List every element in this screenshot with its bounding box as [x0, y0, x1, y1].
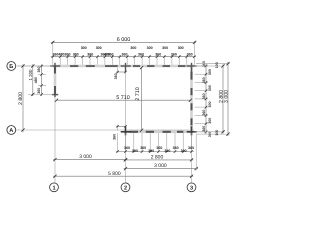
extension line right 2800 bottom	[195, 131, 225, 133]
labels top chain upper row	[81, 46, 184, 50]
axis line 3 vertical	[191, 73, 193, 183]
svg-text:480: 480	[34, 77, 38, 83]
labels right chain 300 col	[208, 69, 212, 137]
svg-text:360: 360	[202, 110, 206, 116]
dimension line 3000 right	[227, 62, 229, 136]
svg-text:300: 300	[130, 46, 136, 50]
dimension chain line bottom	[116, 151, 194, 153]
svg-text:360: 360	[124, 146, 130, 150]
svg-text:360: 360	[122, 53, 128, 57]
ticks 2800 bottom	[124, 158, 193, 161]
dimension chain line top	[51, 56, 196, 58]
wall band top	[53, 65, 194, 68]
svg-text:360: 360	[114, 73, 118, 79]
svg-text:3 000: 3 000	[79, 154, 92, 160]
extension line right 3000 bottom	[196, 133, 230, 135]
svg-text:360: 360	[171, 53, 177, 57]
post axis 2/B	[121, 63, 131, 72]
svg-text:360: 360	[173, 146, 179, 150]
svg-text:1 200: 1 200	[28, 69, 33, 81]
svg-text:300: 300	[178, 46, 184, 50]
svg-text:360: 360	[140, 146, 146, 150]
extension lines top chain	[60, 55, 187, 65]
axis circle 1	[50, 183, 59, 192]
svg-text:300: 300	[208, 118, 212, 124]
dimension chain line right	[205, 64, 207, 134]
axis line 1 vertical	[54, 96, 56, 183]
ticks 3000 bottom right	[124, 167, 198, 170]
dimension line 5800 bottom	[53, 175, 193, 177]
svg-text:360: 360	[187, 53, 193, 57]
svg-text:2 800: 2 800	[18, 92, 24, 105]
extension line top left end	[52, 41, 54, 65]
dimension line 2800 bottom	[124, 159, 194, 161]
dimension line 2800 right	[222, 64, 224, 133]
post bars top wall	[70, 65, 186, 67]
svg-text:2: 2	[124, 185, 127, 191]
svg-text:3 000: 3 000	[223, 90, 229, 103]
svg-text:300: 300	[147, 46, 153, 50]
svg-text:300: 300	[208, 102, 212, 108]
svg-text:1: 1	[52, 185, 55, 191]
axis line A horizontal	[16, 129, 194, 131]
ticks 2800 right	[221, 64, 224, 133]
wall band right	[190, 65, 193, 133]
svg-text:300: 300	[81, 46, 87, 50]
ticks 1200 left	[31, 64, 34, 96]
dimension chain line left	[41, 64, 43, 96]
svg-text:360: 360	[202, 77, 206, 83]
svg-text:360: 360	[65, 53, 71, 57]
svg-text:300: 300	[164, 149, 170, 153]
ticks 3000 right	[226, 62, 229, 136]
axis circle B (left top)	[7, 62, 16, 71]
wall band left	[54, 65, 57, 96]
svg-text:3 000: 3 000	[154, 163, 167, 169]
dimension 360 bottom interior	[116, 125, 127, 131]
wall band bottom right	[124, 131, 193, 134]
ticks bottom chain	[116, 150, 193, 153]
extension line left at B	[18, 65, 53, 67]
axis circle 2	[121, 183, 130, 192]
svg-text:360: 360	[37, 67, 41, 73]
svg-text:300: 300	[208, 85, 212, 91]
svg-text:300: 300	[148, 149, 154, 153]
svg-text:360: 360	[156, 146, 162, 150]
svg-text:2 710: 2 710	[135, 87, 141, 101]
svg-text:360: 360	[73, 53, 79, 57]
svg-text:300: 300	[132, 149, 138, 153]
tick 6000 right	[193, 41, 196, 44]
tick 6000 left	[51, 41, 54, 44]
svg-text:А: А	[9, 128, 13, 134]
svg-text:360: 360	[155, 53, 161, 57]
svg-text:360: 360	[202, 93, 206, 99]
ticks 3000 bottom left	[53, 158, 127, 161]
axis circle A (left bottom)	[7, 126, 16, 135]
labels bottom chain lower row	[132, 149, 187, 153]
svg-text:5 800: 5 800	[108, 171, 121, 177]
svg-text:3: 3	[190, 185, 193, 191]
svg-text:360: 360	[87, 53, 93, 57]
dimension line 2800 left	[22, 64, 24, 132]
svg-text:360: 360	[188, 146, 194, 150]
svg-text:Б: Б	[9, 64, 13, 70]
labels bottom chain upper row	[124, 146, 194, 150]
labels top chain lower row	[53, 53, 193, 57]
post axis 2/A	[121, 126, 131, 135]
ticks right chain	[205, 65, 208, 133]
extension lines left chain	[28, 74, 54, 94]
ticks top chain	[52, 55, 196, 58]
ticks 5800 bottom	[53, 175, 193, 178]
svg-text:5 710: 5 710	[116, 95, 130, 101]
post bars right wall	[191, 72, 193, 126]
svg-text:300: 300	[208, 69, 212, 75]
extension line right 3000 top	[196, 63, 230, 65]
svg-text:300: 300	[96, 46, 102, 50]
extension line x196 bottom	[195, 135, 197, 171]
end post left wall	[52, 92, 58, 97]
extension lines right chain	[195, 66, 208, 132]
dimension line 3000 bottom left	[53, 159, 127, 161]
extension line right 2800 top	[195, 65, 225, 67]
corner post axis 1/B	[50, 63, 60, 72]
axis circle 3	[187, 183, 196, 192]
ticks left chain	[40, 65, 43, 96]
svg-text:360: 360	[37, 88, 41, 94]
ticks 2710	[140, 66, 143, 132]
svg-text:360: 360	[108, 53, 114, 57]
svg-text:360: 360	[113, 134, 117, 140]
axis line B horizontal	[16, 65, 53, 67]
labels right chain 360 col	[202, 61, 206, 132]
svg-text:2 800: 2 800	[151, 155, 164, 161]
axis line 2 vertical	[125, 68, 127, 183]
svg-text:360: 360	[202, 126, 206, 132]
svg-text:6 000: 6 000	[117, 37, 131, 43]
dimension line 6000	[51, 41, 196, 43]
svg-text:300: 300	[162, 46, 168, 50]
svg-text:300: 300	[181, 149, 187, 153]
corner post axis 3/A	[187, 126, 197, 135]
dimension line 1200 left	[32, 64, 34, 96]
dimension 360 top interior	[116, 68, 127, 74]
post bars bottom wall	[130, 131, 183, 133]
dimension line 3000 bottom right	[124, 168, 198, 170]
corner post axis 3/B	[187, 63, 197, 72]
ticks 5710	[55, 99, 192, 102]
dimension line 5710 interior	[57, 99, 191, 101]
svg-text:100: 100	[215, 130, 219, 136]
post bars left wall	[54, 67, 56, 95]
extension lines bottom chain	[118, 133, 192, 153]
svg-text:360: 360	[138, 53, 144, 57]
ticks 2800 left	[21, 64, 24, 131]
dimension line 2710 interior	[141, 68, 143, 131]
extension line top right end	[194, 41, 196, 65]
svg-text:100: 100	[215, 62, 219, 68]
